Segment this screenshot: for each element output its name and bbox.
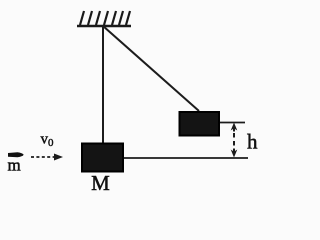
velocity arrow head [54, 154, 63, 161]
height arrow head up [231, 123, 238, 132]
block M [82, 144, 123, 172]
wire vertical string pivot to block M [102, 26, 104, 143]
dashed height arrow shaft [233, 133, 235, 138]
wire diagonal string pivot to raised block [103, 26, 199, 111]
svg-text:v0: v0 [41, 132, 55, 150]
ground line [124, 157, 248, 159]
svg-text:h: h [247, 130, 258, 154]
bullet m [8, 152, 24, 157]
svg-text:M: M [91, 171, 110, 195]
ceiling line [77, 25, 131, 27]
svg-text:m: m [8, 156, 21, 175]
velocity arrow shaft dashed [31, 156, 56, 158]
level line right of raised block [220, 122, 245, 124]
height arrow head down [231, 149, 238, 158]
raised block right [180, 112, 220, 136]
ceiling hatch marks [80, 11, 130, 25]
